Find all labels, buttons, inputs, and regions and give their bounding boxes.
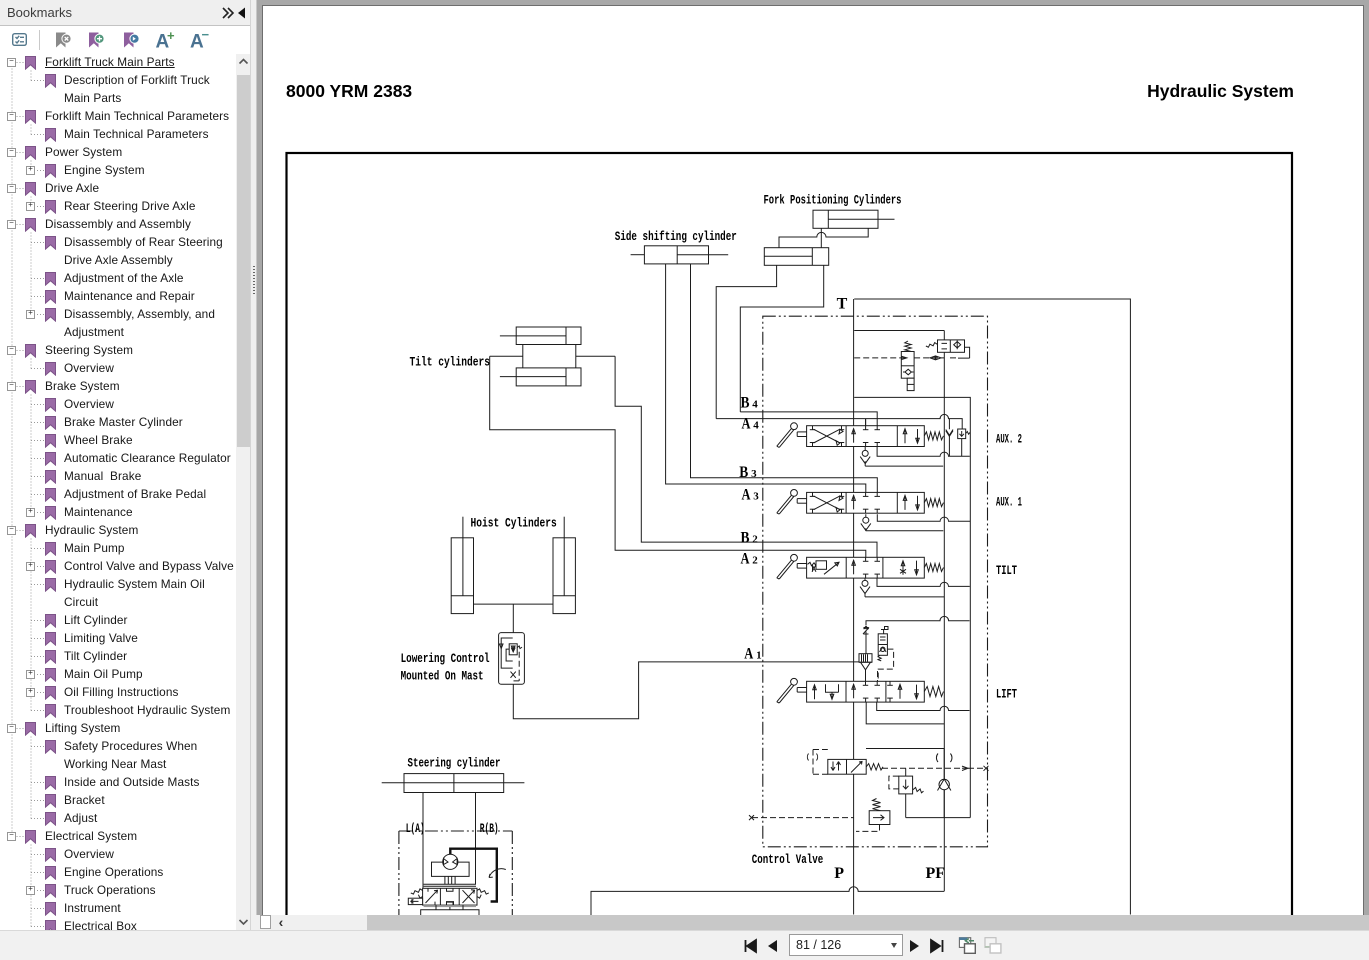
- wire unloader pilot feed dashed: [854, 357, 901, 359]
- wire port B4 horizontal: [740, 412, 877, 426]
- svg-text:B: B: [739, 464, 748, 481]
- wire LIFT bottom return with hop: [877, 702, 970, 711]
- steering unit port links: [445, 876, 455, 884]
- steering spool right cell cross: [463, 890, 475, 903]
- svg-text:B: B: [741, 529, 750, 546]
- svg-text:Tilt cylinders: Tilt cylinders: [410, 354, 491, 369]
- wire AUX2 relief branch risers: [949, 419, 961, 457]
- wire side shifting cylinder rod: [631, 254, 645, 256]
- wire pump line to PF with hop over P: [591, 887, 944, 915]
- svg-text:AUX. 2: AUX. 2: [996, 431, 1022, 446]
- white page: [262, 5, 1364, 930]
- wire LIFT top header with hop: [866, 616, 970, 653]
- AUX2 port check valve: [862, 450, 868, 456]
- AUX2 relief cartridge: [958, 429, 966, 439]
- wire steering cylinder L(A) line: [422, 793, 424, 889]
- wire AUX2 secondary return with hop: [877, 446, 970, 456]
- unloader solenoid right step: [958, 347, 970, 358]
- TILT compensator cell: [808, 562, 816, 566]
- AUX spool valve body: [807, 492, 925, 513]
- bottom toolbar: [0, 930, 1369, 960]
- tilt cylinder 1: [516, 327, 581, 345]
- svg-text:2: 2: [752, 533, 758, 545]
- wire hoist cylinder rods: [462, 517, 464, 596]
- wire hoist bottom connector: [474, 603, 554, 605]
- steering control spool: [423, 888, 477, 905]
- lowering valve X drain: [511, 672, 516, 678]
- svg-text:R(B): R(B): [480, 821, 499, 836]
- wire fork cylinder join vertical: [820, 228, 822, 247]
- LIFT return spring: [924, 687, 943, 697]
- side shifting cylinder: [644, 246, 708, 264]
- wire side shifting cylinder right line to B3: [691, 264, 878, 493]
- svg-text:PF: PF: [926, 865, 946, 882]
- load-sensing cross mark right: [984, 766, 989, 771]
- hoist cylinder 2: [553, 538, 575, 614]
- wire fork line A to port A4: [716, 265, 776, 418]
- wire AUX2 A-port riser: [865, 419, 867, 426]
- steering unit bottom plate: [424, 905, 476, 907]
- AUX2 relief cartridge check: [946, 430, 953, 437]
- AUX spool valve body: [807, 426, 925, 447]
- steering unit housing: [432, 862, 470, 876]
- steering feedback thick link: [450, 849, 497, 902]
- lift lock assembly throttle: [863, 628, 869, 635]
- LIFT center cell ports: [853, 684, 855, 698]
- wire AUX1 secondary return with hop: [877, 514, 970, 521]
- lowering valve restrictor: [509, 644, 517, 655]
- doc horizontal scrollbar: [251, 915, 1369, 930]
- LIFT right cell arrows: [899, 684, 901, 699]
- pilot relief valve dashed box: [889, 776, 899, 789]
- svg-text:TILT: TILT: [996, 563, 1017, 578]
- AUX lever: [791, 423, 798, 430]
- fork positioning cylinder 2: [764, 248, 828, 266]
- steering spool left feedback cap: [408, 898, 422, 904]
- svg-text:Hoist Cylinders: Hoist Cylinders: [471, 516, 557, 531]
- wire relief gallery: [906, 817, 971, 819]
- node T tank box: [854, 299, 1130, 915]
- lowering valve pilot dashed: [514, 652, 520, 681]
- lowering valve bypass loop: [501, 638, 513, 668]
- wire LIFT tank drop: [866, 702, 944, 724]
- AUX crossed-arrows cell: [814, 496, 841, 510]
- svg-text:L(A): L(A): [406, 821, 425, 836]
- steering unit bottom notch: [447, 902, 454, 906]
- svg-text:AUX. 1: AUX. 1: [996, 495, 1022, 510]
- TILT center cell ports: [853, 560, 855, 574]
- wire return line V1 vertical: [943, 331, 945, 892]
- TILT return spring: [924, 564, 943, 572]
- main relief valve: [869, 811, 890, 825]
- svg-text:8000 YRM 2383: 8000 YRM 2383: [286, 81, 412, 101]
- svg-text:A: A: [741, 551, 750, 568]
- svg-text:A: A: [742, 416, 751, 433]
- unloader pilot spring: [905, 341, 911, 352]
- lift solenoid spring: [878, 655, 881, 661]
- control valve boundary dash-dot box: [763, 316, 988, 847]
- wire tilt left branch to port A2: [490, 356, 866, 557]
- AUX return spring: [924, 432, 943, 440]
- wire steering cylinder R(B) line: [475, 793, 477, 885]
- svg-text:4: 4: [753, 420, 759, 432]
- steering unit gerotor motor: [443, 854, 458, 869]
- svg-text:Fork Positioning Cylinders: Fork Positioning Cylinders: [764, 193, 902, 208]
- svg-text:2: 2: [752, 555, 758, 567]
- priority valve pilot throttle: [807, 754, 817, 761]
- unloader pilot line dashed mid: [914, 357, 958, 359]
- wire pilot relief to gallery: [905, 794, 907, 818]
- steering unit bottom stub: [436, 905, 463, 910]
- wire side shifting cylinder left line to A3: [666, 264, 866, 493]
- panel header: [0, 0, 251, 26]
- svg-text:P: P: [834, 865, 844, 882]
- unloader solenoid spring: [926, 343, 937, 348]
- lift solenoid actuator: [881, 627, 888, 634]
- unloader pilot relief valve: [901, 352, 914, 379]
- wire tank inner header: [854, 330, 944, 332]
- wire tilt right branch to port B2: [615, 356, 877, 557]
- pilot relief valve: [899, 776, 913, 794]
- priority flow divider valve: [828, 759, 866, 774]
- svg-text:LIFT: LIFT: [996, 686, 1017, 701]
- steering spool left cell arrow: [426, 890, 438, 903]
- lift lock check valve: [859, 654, 872, 663]
- LIFT spool valve body: [807, 681, 925, 702]
- wire LIFT valve inlet riser: [865, 670, 867, 682]
- svg-text:Control Valve: Control Valve: [752, 852, 824, 867]
- svg-text:4: 4: [752, 399, 758, 411]
- wire fork cylinder 1 rod: [828, 218, 894, 220]
- svg-text:A: A: [742, 486, 751, 503]
- AUX return spring: [924, 499, 943, 507]
- splitter: [251, 0, 257, 915]
- wire fork line B to port B4: [740, 265, 823, 412]
- panel scrollbar: [236, 54, 251, 930]
- priority valve pilot dashed box: [813, 750, 828, 775]
- svg-text:Lowering Control: Lowering Control: [401, 651, 490, 666]
- wire priority feed header: [866, 748, 944, 750]
- unloader drain tail: [907, 378, 914, 390]
- AUX crossed-arrows cell: [814, 429, 841, 443]
- priority valve spring: [866, 764, 883, 770]
- wire tilt yoke frame: [522, 345, 524, 368]
- steering spool center cell marks: [447, 888, 454, 905]
- unloader solenoid valve: [938, 340, 965, 352]
- steering unit port plate: [424, 883, 476, 885]
- svg-text:Mounted On Mast: Mounted On Mast: [401, 669, 484, 684]
- svg-text:1: 1: [756, 650, 762, 662]
- svg-text:A: A: [744, 646, 753, 663]
- AUX center cell ports: [853, 495, 855, 509]
- tilt cylinder 2: [516, 368, 581, 386]
- svg-text:3: 3: [751, 468, 757, 480]
- svg-text:Side shifting cylinder: Side shifting cylinder: [615, 229, 737, 244]
- wire lowering control to port A1: [513, 662, 860, 719]
- AUX right cell arrows: [904, 429, 906, 444]
- document background: [251, 0, 1369, 930]
- load-sensing drain dashed left with cross mark: [752, 817, 854, 819]
- LIFT lock cell: [814, 685, 816, 700]
- wire mid header with return line V2: [854, 397, 970, 817]
- wire pilot relief riser: [905, 768, 907, 776]
- steering unit lower housing: [421, 910, 479, 915]
- hoist cylinder 1: [451, 538, 473, 614]
- unloader check diamond: [903, 369, 914, 375]
- TILT spool valve body: [807, 557, 925, 578]
- anti-cavitation check throttle: [936, 754, 952, 763]
- lowering control valve on mast: [499, 633, 525, 685]
- anti-cavitation check valve: [939, 779, 949, 789]
- LIFT lever: [791, 678, 798, 685]
- wire anti-cavitation check riser: [943, 749, 945, 818]
- schematic outer border: [287, 153, 1293, 943]
- wire TILT check return: [865, 577, 944, 597]
- main relief spring: [873, 799, 881, 811]
- lowering valve spring: [517, 646, 522, 649]
- wire tilt cylinder rods: [500, 335, 566, 337]
- TILT lever: [791, 554, 798, 561]
- steering spool left spring: [411, 889, 423, 898]
- wire port A4 horizontal with hop: [716, 414, 962, 429]
- wire AUX2 check return: [865, 446, 943, 466]
- steering unit boundary dash-dot box: [399, 831, 512, 915]
- AUX right cell arrows: [904, 495, 906, 510]
- unloader pilot facing arrows: [930, 356, 941, 360]
- TILT right cell arrows: [902, 561, 904, 575]
- main relief drain dashed: [856, 825, 880, 832]
- wire TILT secondary return with hop: [877, 577, 970, 586]
- lift lock pilot dashed: [878, 649, 894, 681]
- svg-text:T: T: [837, 295, 848, 312]
- wire fork link with crossover hop: [779, 228, 868, 247]
- AUX1 port check valve: [863, 517, 869, 523]
- svg-text:Hydraulic System: Hydraulic System: [1147, 81, 1294, 101]
- panel toolbar icons: [0, 26, 236, 54]
- svg-text:3: 3: [753, 490, 759, 502]
- svg-text:B: B: [741, 395, 750, 412]
- lowering valve bracket: [506, 649, 513, 661]
- steering cylinder: [404, 774, 504, 793]
- wire AUX1 check return: [866, 514, 944, 531]
- steering spool right spring: [477, 889, 489, 898]
- steering rotation arc arrow: [489, 869, 506, 878]
- wire steering cylinder rod: [382, 782, 525, 784]
- lift lowering solenoid valve: [878, 634, 887, 656]
- bookmarks panel: [0, 0, 251, 930]
- TILT port check valve: [862, 580, 868, 586]
- pilot relief spring: [913, 788, 924, 793]
- panel left edge tab: [0, 26, 2, 44]
- fork positioning cylinder 1: [813, 210, 878, 228]
- AUX lever: [791, 490, 798, 497]
- svg-text:Steering cylinder: Steering cylinder: [408, 756, 501, 771]
- wire pressure line P vertical: [853, 299, 855, 915]
- load-sensing line dashed: [882, 767, 986, 769]
- AUX center cell ports: [853, 429, 855, 443]
